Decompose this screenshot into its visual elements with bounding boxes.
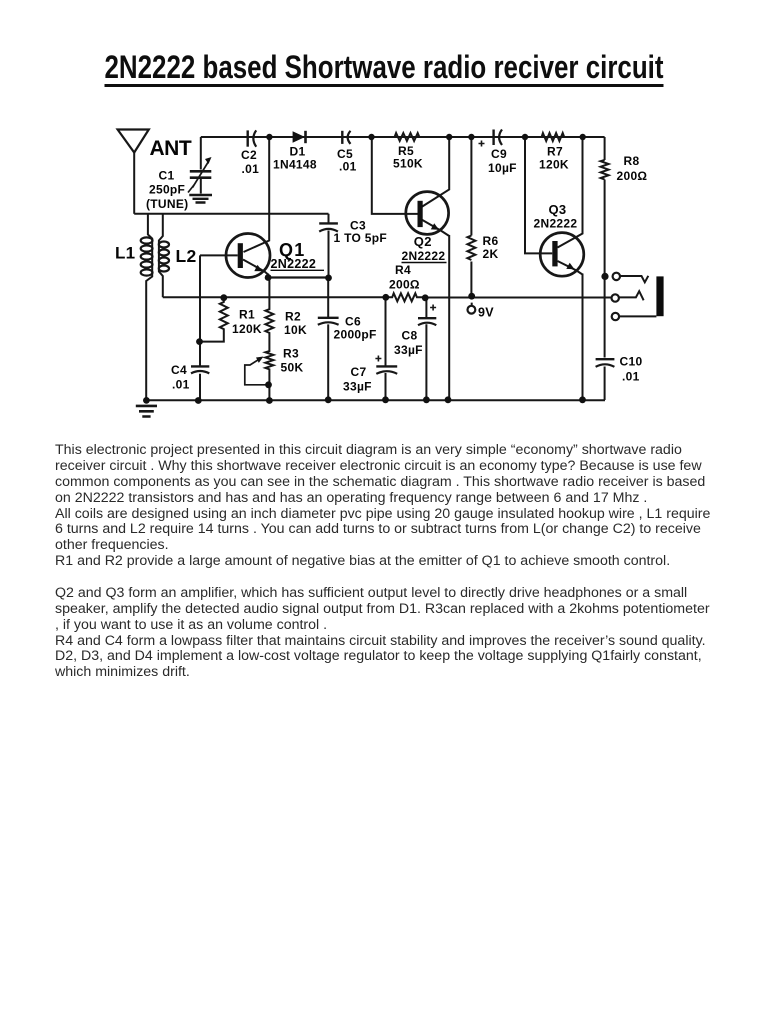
svg-text:L2: L2 <box>176 246 197 266</box>
svg-text:(TUNE): (TUNE) <box>146 197 188 211</box>
svg-text:200Ω: 200Ω <box>389 278 420 292</box>
svg-text:.01: .01 <box>172 377 190 391</box>
svg-text:Q3: Q3 <box>549 202 567 217</box>
svg-text:510K: 510K <box>393 157 423 171</box>
svg-text:R6: R6 <box>483 234 499 248</box>
svg-text:10K: 10K <box>284 323 307 337</box>
svg-text:R8: R8 <box>624 154 640 168</box>
svg-text:33µF: 33µF <box>394 343 423 357</box>
svg-text:C7: C7 <box>351 365 367 379</box>
svg-text:200Ω: 200Ω <box>617 169 648 183</box>
svg-text:1N4148: 1N4148 <box>273 158 317 172</box>
svg-text:2N2222: 2N2222 <box>402 249 446 263</box>
svg-text:C9: C9 <box>491 147 507 161</box>
svg-text:R1: R1 <box>239 308 255 322</box>
svg-text:C3: C3 <box>350 218 366 232</box>
svg-text:2N2222: 2N2222 <box>271 257 317 271</box>
svg-text:C4: C4 <box>171 363 187 377</box>
svg-text:C2: C2 <box>241 148 257 162</box>
svg-text:C6: C6 <box>345 315 361 329</box>
svg-text:120K: 120K <box>539 158 569 172</box>
svg-text:10µF: 10µF <box>488 161 517 175</box>
svg-text:2K: 2K <box>483 247 499 261</box>
svg-text:9V: 9V <box>478 306 494 320</box>
svg-text:R3: R3 <box>283 347 299 361</box>
svg-text:D1: D1 <box>290 144 306 158</box>
svg-text:C8: C8 <box>402 329 418 343</box>
svg-text:1 TO 5pF: 1 TO 5pF <box>334 231 388 245</box>
svg-text:R7: R7 <box>547 144 563 158</box>
svg-text:Q2: Q2 <box>414 234 432 249</box>
svg-text:C10: C10 <box>620 354 643 368</box>
svg-text:33µF: 33µF <box>343 380 372 394</box>
svg-text:.01: .01 <box>242 162 260 176</box>
svg-text:ANT: ANT <box>150 137 192 160</box>
svg-text:C1: C1 <box>159 169 175 183</box>
svg-text:120K: 120K <box>232 322 262 336</box>
svg-text:2000pF: 2000pF <box>334 328 377 342</box>
svg-text:R2: R2 <box>285 310 301 324</box>
svg-text:L1: L1 <box>115 244 135 263</box>
svg-text:.01: .01 <box>339 159 357 173</box>
svg-text:R4: R4 <box>395 263 411 277</box>
svg-text:2N2222: 2N2222 <box>534 217 578 231</box>
svg-text:250pF: 250pF <box>149 183 185 197</box>
svg-text:.01: .01 <box>622 370 640 384</box>
svg-text:50K: 50K <box>281 361 304 375</box>
